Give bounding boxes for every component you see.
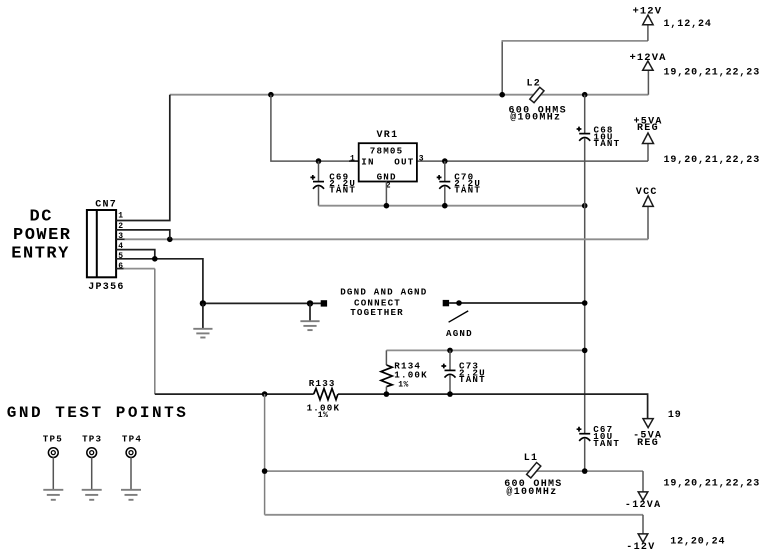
capacitor C69 bbox=[310, 161, 324, 206]
wire pin 3 stub bbox=[116, 238, 124, 240]
node junction AGND rail bbox=[582, 203, 588, 209]
svg-text:JP356: JP356 bbox=[88, 282, 125, 293]
svg-text:TANT: TANT bbox=[329, 185, 356, 196]
wire -12V branch vertical from R133 rail bbox=[264, 394, 266, 515]
svg-text:-12VA: -12VA bbox=[625, 500, 662, 511]
node junction pin4/pin5 bbox=[152, 256, 158, 262]
svg-text:12,20,24: 12,20,24 bbox=[670, 537, 725, 548]
svg-text:L1: L1 bbox=[524, 453, 539, 464]
svg-text:1.00K: 1.00K bbox=[394, 369, 428, 380]
node junction GND pin on rail bbox=[384, 203, 390, 209]
node junction DGND left ground bbox=[200, 300, 206, 306]
svg-text:IN: IN bbox=[361, 156, 374, 167]
terminal square AGND bbox=[443, 300, 449, 306]
svg-text:GND TEST POINTS: GND TEST POINTS bbox=[7, 404, 189, 422]
wire AGND tie to main rail bbox=[449, 302, 585, 304]
power symbol +12V bbox=[643, 15, 653, 25]
power symbol +5VA REG bbox=[643, 133, 654, 144]
svg-text:TANT: TANT bbox=[459, 374, 486, 385]
svg-text:DC: DC bbox=[30, 207, 53, 226]
capacitor C68 bbox=[577, 127, 591, 141]
wire pin 1 to +12V rail bbox=[116, 95, 170, 221]
node junction top rail on AGND rail bbox=[582, 348, 588, 354]
node junction C73 top bbox=[447, 348, 453, 354]
svg-text:REG: REG bbox=[637, 123, 659, 134]
svg-text:L2: L2 bbox=[527, 79, 542, 90]
svg-text:TANT: TANT bbox=[454, 185, 481, 196]
svg-text:3: 3 bbox=[419, 154, 424, 163]
svg-text:19,20,21,22,23: 19,20,21,22,23 bbox=[664, 155, 761, 166]
wire pin 4 to pin 5 net bbox=[116, 250, 155, 259]
node junction on +12VA rail at C68 bbox=[582, 92, 588, 98]
svg-text:1: 1 bbox=[118, 212, 123, 221]
svg-text:19,20,21,22,23: 19,20,21,22,23 bbox=[664, 479, 761, 490]
test point TP3 bbox=[82, 434, 103, 500]
wire -12V rail y=513.8 bbox=[265, 514, 643, 516]
node junction on +12V rail at +12V branch bbox=[499, 92, 505, 98]
op-amp/regulator VR1 box bbox=[359, 143, 417, 181]
test point TP5 bbox=[43, 434, 64, 500]
capacitor C73 bbox=[441, 350, 455, 394]
node junction C67 bottom bbox=[582, 468, 588, 474]
wire VR1 output to +5VA bbox=[417, 160, 648, 162]
inductor L2 body bbox=[530, 87, 544, 102]
node junction on +12V rail at VR1 tap bbox=[268, 92, 274, 98]
node junction R134 bottom bbox=[384, 391, 390, 397]
inductor L1 body bbox=[527, 462, 541, 477]
capacitor C70 bbox=[437, 161, 451, 206]
svg-text:19: 19 bbox=[668, 410, 682, 421]
ground DGND right bbox=[300, 303, 319, 330]
svg-text:5: 5 bbox=[118, 252, 123, 261]
svg-text:TP4: TP4 bbox=[122, 434, 142, 445]
svg-text:6: 6 bbox=[118, 262, 123, 271]
svg-text:@100MHz: @100MHz bbox=[510, 112, 561, 124]
node junction C70 bottom bbox=[442, 203, 448, 209]
wire pin 2 down to VCC rail bbox=[116, 230, 170, 239]
node junction pin2 to VCC rail bbox=[167, 237, 173, 243]
svg-text:19,20,21,22,23: 19,20,21,22,23 bbox=[664, 67, 761, 78]
terminal square DGND bbox=[321, 300, 327, 306]
wire pin 6 stub bbox=[116, 268, 124, 270]
resistor R133 bbox=[314, 389, 338, 400]
wire R134/C73 top rail bbox=[386, 349, 584, 351]
svg-text:AGND: AGND bbox=[446, 328, 473, 339]
wire pin 6 to -12V rail bbox=[124, 268, 155, 270]
wire -12VA rail y=471.1 bbox=[265, 470, 643, 472]
svg-text:TANT: TANT bbox=[593, 438, 620, 449]
svg-text:+12VA: +12VA bbox=[630, 52, 667, 64]
power symbol -12VA (down) bbox=[638, 492, 648, 500]
node junction -12V branch on R133 rail bbox=[262, 391, 268, 397]
ground DGND left bbox=[193, 303, 212, 337]
text DGND AND AGND CONNECT TOGETHER bbox=[340, 287, 427, 318]
wire VCC branch vertical bbox=[647, 206, 649, 239]
node junction C73 bottom bbox=[447, 391, 453, 397]
wire VR1 GND pin 2 stem bbox=[385, 182, 387, 206]
wire AGND vertical rail x=584.7 upper segment to C68 bbox=[584, 95, 586, 134]
wire VR1 input branch from +12V rail bbox=[271, 95, 349, 161]
svg-text:VCC: VCC bbox=[636, 187, 658, 198]
text DC POWER ENTRY bbox=[11, 207, 71, 263]
wire analog ground rail under VR1 bbox=[319, 205, 585, 207]
test point TP4 bbox=[121, 434, 142, 500]
resistor R134 bbox=[381, 350, 392, 394]
node junction DGND right ground bbox=[307, 300, 313, 306]
svg-text:1%: 1% bbox=[398, 381, 409, 390]
capacitor C67 bbox=[577, 427, 591, 471]
node junction C69 top bbox=[316, 158, 322, 164]
svg-text:TOGETHER: TOGETHER bbox=[350, 307, 404, 318]
svg-text:OUT: OUT bbox=[394, 156, 414, 167]
wire +5VA REG branch from OUT rail up bbox=[647, 144, 649, 162]
wire VCC rail y=239.3 bbox=[124, 238, 648, 240]
wire +12V branch from rail up to +12V symbol bbox=[501, 41, 503, 95]
svg-text:REG: REG bbox=[637, 438, 659, 449]
power symbol VCC bbox=[643, 196, 653, 207]
power symbol -5VA REG (down) bbox=[643, 419, 653, 428]
svg-text:1,12,24: 1,12,24 bbox=[664, 19, 712, 30]
wire pin 5 DGND net bbox=[116, 259, 321, 304]
svg-text:-12V: -12V bbox=[626, 542, 655, 553]
node junction AGND tie start bbox=[456, 300, 462, 306]
connector CN7 body bbox=[87, 210, 116, 277]
svg-text:78M05: 78M05 bbox=[370, 145, 404, 156]
svg-text:@100MHz: @100MHz bbox=[506, 486, 557, 498]
svg-text:TP3: TP3 bbox=[82, 434, 102, 445]
net tick slash AGND bbox=[449, 311, 469, 322]
node junction C70 top bbox=[442, 158, 448, 164]
wire +12V rail y=94.7 bbox=[170, 94, 649, 96]
svg-text:TP5: TP5 bbox=[43, 434, 63, 445]
wire -12V node rail y=394.1 with R133 bbox=[155, 394, 648, 419]
power symbol +12VA bbox=[643, 61, 653, 70]
svg-text:TANT: TANT bbox=[594, 138, 621, 149]
wire AGND vertical rail x=584.7 main segment bbox=[584, 138, 586, 434]
svg-text:R133: R133 bbox=[309, 378, 336, 389]
power symbol -12V (down) bbox=[638, 534, 648, 543]
svg-text:DGND AND AGND: DGND AND AGND bbox=[340, 287, 427, 298]
svg-text:1%: 1% bbox=[318, 411, 329, 420]
node junction AGND tie on rail bbox=[582, 300, 588, 306]
svg-text:VR1: VR1 bbox=[377, 130, 399, 141]
svg-text:ENTRY: ENTRY bbox=[11, 244, 70, 263]
svg-text:+12V: +12V bbox=[633, 6, 663, 18]
node junction -12VA rail left bbox=[262, 468, 268, 474]
svg-text:POWER: POWER bbox=[13, 226, 72, 245]
svg-text:1: 1 bbox=[350, 154, 355, 163]
svg-text:CN7: CN7 bbox=[95, 200, 117, 211]
